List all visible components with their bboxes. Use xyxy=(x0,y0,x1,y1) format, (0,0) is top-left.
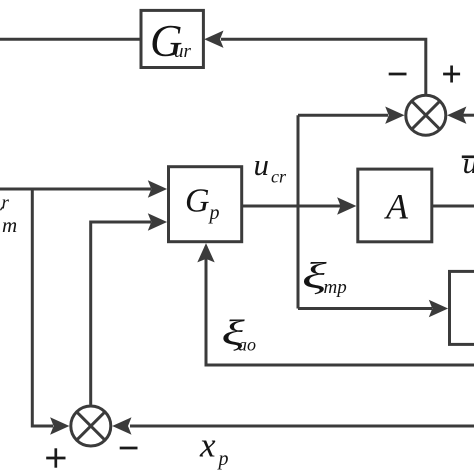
svg-text:u: u xyxy=(254,147,270,182)
svg-text:ao: ao xyxy=(238,335,256,355)
svg-text:p: p xyxy=(208,202,220,224)
svg-text:mp: mp xyxy=(324,277,347,298)
svg-text:G: G xyxy=(185,183,210,220)
svg-text:u: u xyxy=(463,145,474,180)
svg-text:x: x xyxy=(199,425,216,464)
svg-text:m: m xyxy=(2,213,17,237)
svg-text:A: A xyxy=(384,187,409,227)
svg-text:cr: cr xyxy=(271,166,287,186)
svg-text:ur: ur xyxy=(174,41,192,62)
svg-text:p: p xyxy=(217,448,229,470)
svg-text:r: r xyxy=(2,192,10,213)
